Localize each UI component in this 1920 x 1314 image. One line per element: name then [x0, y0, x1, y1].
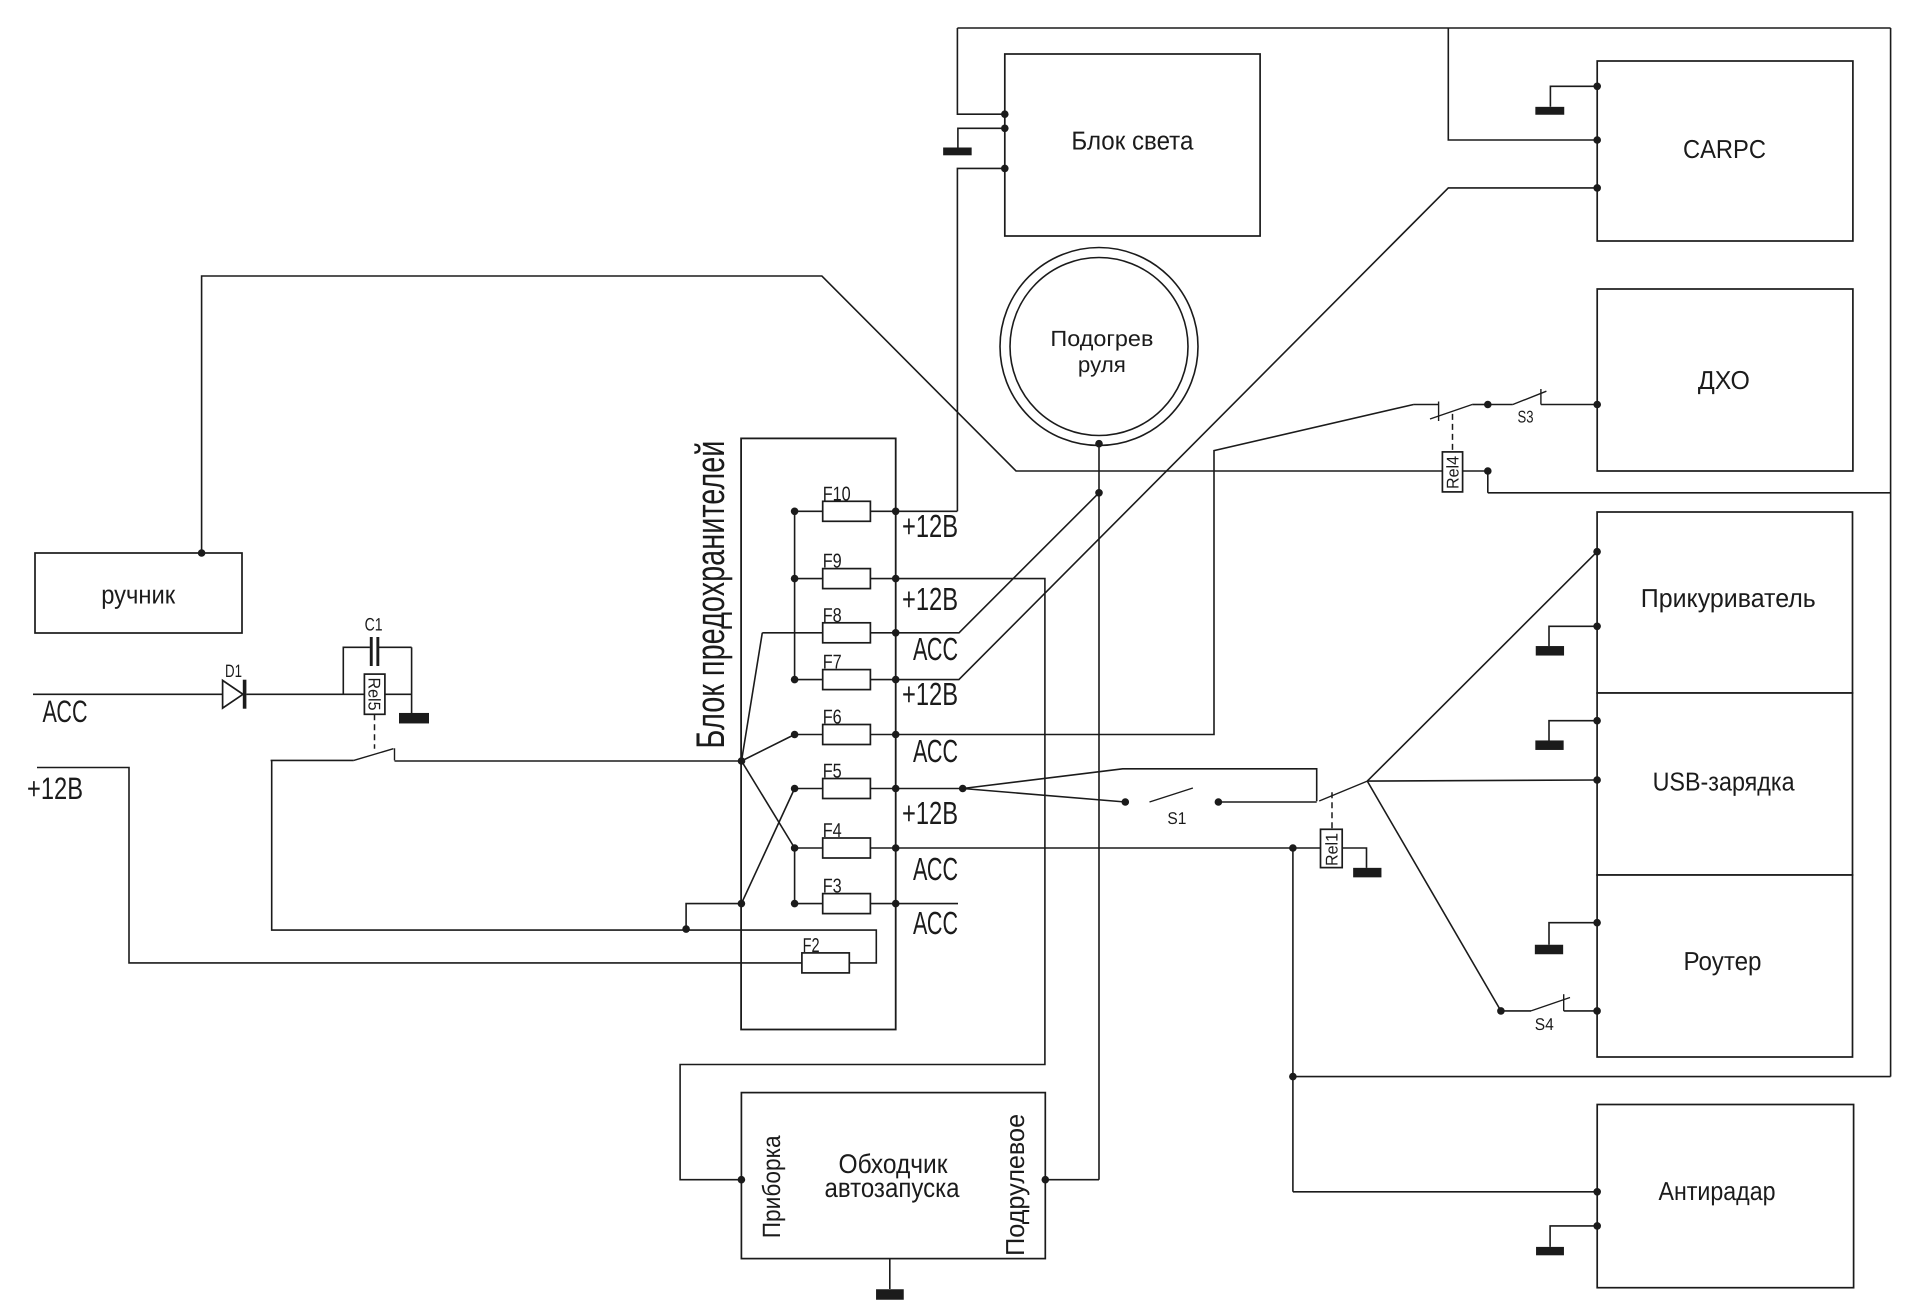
- ground Роутер: [1535, 923, 1597, 955]
- node прикуриватель gnd pin: [1593, 623, 1601, 631]
- node ДХО pin: [1593, 401, 1601, 409]
- block Обходчик автозапуска: [741, 1093, 1045, 1259]
- wire F3 feed to F5: [741, 789, 794, 904]
- node F3 feed: [738, 900, 746, 908]
- wire подрулевое to heater line: [1045, 1179, 1099, 1181]
- node S3 mid: [1484, 401, 1492, 409]
- svg-text:F2: F2: [803, 935, 820, 957]
- svg-text:Rel5: Rel5: [365, 678, 384, 711]
- wire Rel5 right: [385, 693, 412, 695]
- node carpc pin2: [1593, 136, 1601, 144]
- wire heater vertical: [1098, 444, 1100, 1180]
- node heater bottom: [1095, 440, 1103, 448]
- switch S1: [1150, 788, 1193, 828]
- wire handbrake to Rel4 coil: [202, 276, 1443, 553]
- wire apex to F6: [742, 735, 795, 762]
- svg-text:D1: D1: [225, 661, 242, 681]
- wire F6 output to S3: [896, 405, 1414, 735]
- wire fuse input bus F10-F7: [794, 511, 796, 679]
- node ACC bottom junction: [1289, 1073, 1297, 1081]
- svg-text:автозапуска: автозапуска: [825, 1173, 961, 1203]
- switch S3 part2: [1488, 389, 1597, 427]
- svg-text:F10: F10: [823, 483, 851, 505]
- node light pin3: [1001, 165, 1009, 173]
- node F2 loop junction: [682, 925, 690, 933]
- switch Rel5 contact: [271, 748, 395, 760]
- svg-text:Приборка: Приборка: [758, 1135, 786, 1238]
- relay coil Rel4: [1442, 452, 1462, 492]
- node fuse apex: [738, 757, 746, 765]
- wire S1 lower feed: [963, 789, 1126, 803]
- node подрулевое pin: [1042, 1176, 1050, 1184]
- node light pin2: [1001, 125, 1009, 133]
- block Роутер: [1597, 875, 1852, 1057]
- node антирадар feed: [1593, 1188, 1601, 1196]
- node carpc pin3: [1593, 184, 1601, 192]
- block ДХО: [1597, 289, 1853, 471]
- label F10 +12V: [902, 508, 958, 544]
- svg-text:Подрулевое: Подрулевое: [1000, 1114, 1030, 1256]
- block Блок света: [1005, 54, 1260, 236]
- wire apex to F8: [742, 633, 763, 761]
- node S1 right contact: [1215, 798, 1223, 806]
- ground Антирадар: [1536, 1226, 1597, 1255]
- wire Rel5 contact to fuse apex: [395, 760, 742, 762]
- node роутер feed: [1593, 1007, 1601, 1015]
- wire ACC distribution horizontal: [1488, 492, 1891, 494]
- wire junction to F3 row: [686, 904, 741, 930]
- ground CARPC: [1535, 86, 1597, 114]
- wire fanout to USB: [1367, 780, 1597, 781]
- svg-text:F8: F8: [823, 605, 842, 627]
- node usb gnd pin: [1593, 717, 1601, 725]
- block Прикуриватель: [1597, 512, 1852, 693]
- svg-text:F9: F9: [823, 551, 842, 573]
- node carpc pin1: [1593, 83, 1601, 91]
- wire F8 output diagonal to heater node: [896, 493, 1099, 633]
- node роутер gnd pin: [1593, 919, 1601, 927]
- svg-text:S4: S4: [1535, 1015, 1554, 1034]
- diode D1: [223, 661, 247, 709]
- fuse F9: [791, 551, 900, 589]
- block Блок предохранителей (fuse box): [741, 438, 896, 1029]
- wire apex to F4: [742, 761, 795, 848]
- svg-text:руля: руля: [1078, 352, 1126, 377]
- block Антирадар: [1597, 1105, 1853, 1288]
- svg-text:F7: F7: [823, 652, 842, 674]
- wire light pin3 to F10: [957, 168, 1004, 511]
- label F7 +12V: [902, 676, 958, 712]
- node label ACC input: [43, 694, 88, 729]
- wire +12V input to F2: [37, 768, 802, 963]
- svg-text:Роутер: Роутер: [1684, 946, 1762, 976]
- wire F9 output to bypass: [680, 579, 1045, 1180]
- wire light pin1 to top bus: [957, 28, 1004, 114]
- relay coil Rel5: [364, 674, 385, 714]
- label F8 ACC: [913, 631, 958, 667]
- svg-text:АСС: АСС: [43, 694, 88, 729]
- block CARPC: [1597, 61, 1853, 241]
- ground USB-зарядка: [1535, 721, 1597, 750]
- node S1 left contact: [1122, 798, 1130, 806]
- wire fanout to S4: [1367, 781, 1501, 1011]
- wire Rel4 right: [1463, 470, 1488, 472]
- block USB-зарядка: [1597, 693, 1852, 875]
- fuse F8: [762, 605, 899, 643]
- ground Блок света: [943, 128, 1005, 155]
- ground Rel5/C1: [399, 647, 429, 723]
- svg-text:Rel1: Rel1: [1323, 833, 1342, 866]
- node handbrake top: [198, 549, 206, 557]
- wire carpc pin2 to top bus: [1448, 28, 1597, 140]
- wire F3 output: [896, 903, 958, 905]
- switch S4: [1501, 994, 1597, 1034]
- label F6 ACC: [913, 733, 958, 769]
- wire right border bus: [1890, 28, 1892, 1077]
- svg-text:+12В: +12В: [902, 508, 958, 544]
- svg-text:Антирадар: Антирадар: [1659, 1176, 1776, 1206]
- svg-text:АСС: АСС: [913, 733, 958, 769]
- fuse F3: [791, 876, 900, 914]
- wire Антирадар feed: [1293, 1191, 1597, 1193]
- node F4 junction: [1289, 844, 1297, 852]
- svg-text:Блок света: Блок света: [1071, 126, 1193, 156]
- wire F4 junction down: [1292, 848, 1294, 1192]
- wire F4 output: [896, 847, 1321, 849]
- wire F2 right loop: [272, 760, 877, 963]
- fuse F7: [791, 652, 900, 690]
- svg-text:F4: F4: [823, 820, 842, 842]
- svg-text:F3: F3: [823, 876, 842, 898]
- svg-text:S1: S1: [1167, 809, 1186, 828]
- wire F10 output: [896, 510, 958, 512]
- wire Rel4 output drop: [1487, 471, 1489, 493]
- dashed link Rel5 to contact: [374, 714, 376, 748]
- label F5 +12V: [902, 795, 958, 831]
- wire ACC input: [33, 693, 223, 695]
- switch S3 part1: [1414, 402, 1488, 422]
- block ручник (handbrake): [35, 553, 242, 633]
- fuse F6: [791, 707, 900, 745]
- svg-text:CARPC: CARPC: [1683, 134, 1766, 164]
- node usb feed: [1593, 776, 1601, 784]
- node S4 left: [1497, 1007, 1505, 1015]
- node F5 split: [959, 785, 967, 793]
- svg-text:USB-зарядка: USB-зарядка: [1653, 767, 1795, 797]
- node heater ACC junction: [1095, 489, 1103, 497]
- svg-text:Блок предохранителей: Блок предохранителей: [689, 441, 733, 749]
- node light pin1: [1001, 110, 1009, 118]
- node антирадар gnd pin: [1593, 1222, 1601, 1230]
- fuse F10: [791, 483, 900, 521]
- ground Прикуриватель: [1536, 626, 1597, 655]
- relay coil Rel1: [1321, 829, 1343, 867]
- wire D1 to Rel5: [246, 693, 364, 695]
- switch Rel1 contact blade: [1319, 781, 1367, 801]
- svg-text:+12В: +12В: [902, 581, 958, 617]
- svg-text:ручник: ручник: [101, 580, 176, 610]
- svg-text:F5: F5: [823, 761, 842, 783]
- dashed link Rel4 to S3: [1452, 414, 1454, 452]
- capacitor C1: [343, 615, 411, 695]
- node label +12V input: [27, 771, 83, 806]
- wire F5 output: [896, 788, 963, 790]
- svg-text:Rel4: Rel4: [1444, 456, 1463, 489]
- dashed link Rel1 to blade: [1331, 792, 1333, 829]
- wire S1 right: [1218, 801, 1316, 803]
- wire ACC bottom horizontal: [1293, 1076, 1891, 1078]
- fuse F4: [791, 820, 900, 858]
- svg-text:S3: S3: [1518, 408, 1534, 427]
- label F3 ACC: [913, 905, 958, 941]
- svg-text:F6: F6: [823, 707, 842, 729]
- svg-text:ДХО: ДХО: [1698, 365, 1750, 395]
- label F9 +12V: [902, 581, 958, 617]
- svg-text:Подогрев: Подогрев: [1050, 326, 1153, 351]
- wire fuse input bus F4-F3: [794, 848, 796, 904]
- svg-text:+12В: +12В: [902, 676, 958, 712]
- svg-text:Прикуриватель: Прикуриватель: [1641, 583, 1816, 613]
- svg-text:+12В: +12В: [27, 771, 83, 806]
- wire F7 output diagonal to CARPC: [896, 188, 1597, 680]
- wire fanout to Прикуриватель: [1367, 552, 1597, 781]
- label F4 ACC: [913, 851, 958, 887]
- svg-text:АСС: АСС: [913, 851, 958, 887]
- node приборка pin: [738, 1176, 746, 1184]
- wire S1 upper bypass: [963, 769, 1317, 802]
- svg-text:C1: C1: [365, 615, 383, 635]
- svg-text:АСС: АСС: [913, 905, 958, 941]
- wire top +12V bus: [957, 27, 1890, 29]
- fuse F5: [791, 761, 900, 799]
- svg-text:АСС: АСС: [913, 631, 958, 667]
- ground Обходчик: [876, 1259, 904, 1300]
- node прикуриватель feed: [1593, 548, 1601, 556]
- block Подогрев руля (steering heater): [1000, 248, 1198, 446]
- fuse F2: [802, 935, 849, 973]
- node Rel4 output: [1484, 467, 1492, 475]
- svg-text:+12В: +12В: [902, 795, 958, 831]
- label Блок предохранителей: [689, 441, 733, 749]
- ground Rel1: [1342, 848, 1381, 877]
